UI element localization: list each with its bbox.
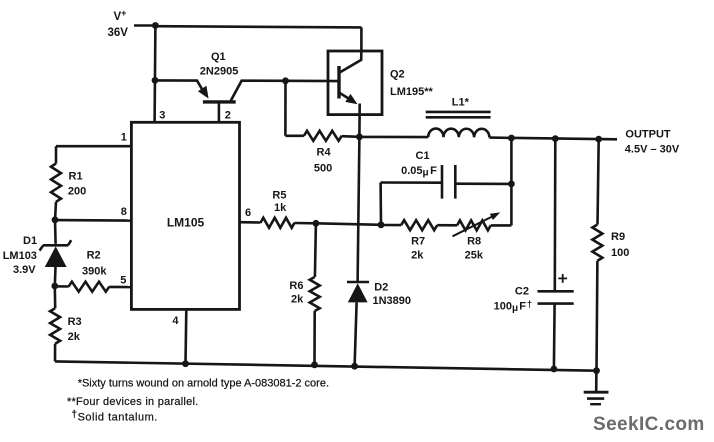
svg-text:R9: R9 [611, 231, 625, 243]
svg-text:25k: 25k [465, 249, 484, 261]
svg-text:6: 6 [245, 207, 251, 219]
svg-text:3.9V: 3.9V [13, 264, 36, 276]
svg-text:1N3890: 1N3890 [373, 295, 412, 307]
svg-text:1k: 1k [274, 202, 287, 214]
svg-text:200: 200 [68, 185, 86, 197]
svg-text:2k: 2k [291, 293, 304, 305]
svg-text:LM103: LM103 [3, 250, 37, 262]
svg-text:390k: 390k [82, 265, 107, 277]
svg-text:R6: R6 [289, 280, 303, 292]
svg-text:0.05μF: 0.05μF [401, 165, 437, 179]
svg-text:1: 1 [121, 132, 127, 144]
svg-text:V+: V+ [114, 8, 127, 23]
svg-text:100μF†: 100μF† [494, 299, 533, 314]
svg-text:C2: C2 [515, 286, 529, 298]
svg-text:R5: R5 [272, 190, 286, 202]
svg-text:SeekIC.com: SeekIC.com [593, 414, 705, 435]
svg-text:D2: D2 [374, 282, 388, 294]
svg-text:C1: C1 [416, 150, 430, 162]
svg-text:36V: 36V [108, 27, 129, 39]
svg-text:2: 2 [225, 109, 231, 121]
svg-text:LM195**: LM195** [390, 86, 434, 98]
svg-text:R8: R8 [467, 236, 481, 248]
svg-text:R3: R3 [68, 316, 82, 328]
svg-text:†Solid tantalum.: †Solid tantalum. [72, 409, 158, 423]
svg-text:**Four devices in parallel.: **Four devices in parallel. [67, 396, 198, 408]
svg-text:4: 4 [172, 315, 179, 327]
svg-text:D1: D1 [23, 235, 37, 247]
svg-text:R2: R2 [87, 250, 101, 262]
svg-text:R4: R4 [317, 147, 332, 159]
svg-text:2k: 2k [68, 331, 81, 343]
svg-text:2N2905: 2N2905 [200, 65, 239, 77]
svg-text:OUTPUT: OUTPUT [625, 128, 671, 140]
svg-text:LM105: LM105 [167, 216, 205, 230]
svg-text:Q1: Q1 [211, 51, 226, 63]
svg-text:3: 3 [159, 109, 165, 121]
svg-text:L1*: L1* [452, 96, 470, 108]
svg-text:8: 8 [121, 206, 127, 218]
svg-text:R1: R1 [69, 171, 83, 183]
svg-text:500: 500 [314, 162, 332, 174]
svg-text:Q2: Q2 [390, 69, 405, 81]
svg-text:100: 100 [611, 247, 629, 259]
svg-text:R7: R7 [411, 236, 425, 248]
svg-text:5: 5 [120, 275, 126, 287]
svg-text:4.5V – 30V: 4.5V – 30V [625, 144, 680, 156]
svg-text:2k: 2k [411, 249, 424, 261]
svg-text:*Sixty turns wound on arnold t: *Sixty turns wound on arnold type A-0830… [78, 377, 329, 389]
